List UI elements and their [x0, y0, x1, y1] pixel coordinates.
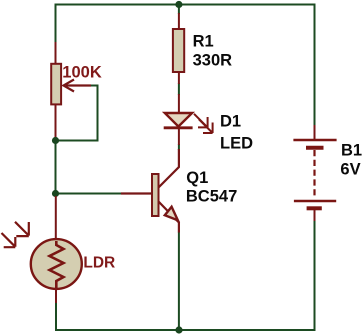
wire bottom rail right segment [179, 220, 315, 330]
svg-text:LED: LED [220, 134, 253, 152]
wire segment R1 to LED [178, 83, 180, 95]
wire from node A down to LDR node [55, 141, 57, 194]
LED emission arrows [194, 114, 208, 128]
wire top rail [56, 4, 315, 6]
wire top rail to R1 [178, 5, 180, 15]
wire right vertical from top rail to battery [314, 4, 316, 126]
svg-text:D1: D1 [220, 113, 241, 131]
LED D1 [164, 94, 213, 145]
node B (LDR top junction) [52, 190, 59, 197]
LDR [2, 196, 82, 303]
LDR light arrows [15, 222, 29, 236]
transistor Q1 [121, 149, 179, 233]
wire base wire from LDR node to Q1 base lead [56, 193, 122, 195]
potentiometer 100K [51, 42, 91, 141]
node A (pot bottom junction) [52, 137, 59, 144]
wire LDR bottom to bottom rail [56, 302, 179, 330]
svg-text:B1: B1 [341, 142, 362, 160]
svg-text:BC547: BC547 [186, 187, 237, 205]
svg-text:Q1: Q1 [186, 169, 208, 187]
svg-text:100K: 100K [62, 63, 102, 81]
wire Q1 emitter to bottom rail [178, 232, 180, 330]
battery B1 [293, 125, 336, 221]
node bottom rail junction [175, 326, 182, 333]
node top rail junction [175, 1, 182, 8]
svg-text:330R: 330R [193, 52, 233, 70]
svg-text:R1: R1 [193, 33, 214, 51]
svg-text:LDR: LDR [83, 255, 115, 272]
wire segment LED to Q1 collector [178, 144, 180, 150]
wire left vertical from top rail to pot [55, 4, 57, 43]
resistor R1 [173, 13, 184, 84]
svg-text:6V: 6V [340, 160, 360, 178]
wire pot wiper feedback loop [58, 86, 98, 141]
